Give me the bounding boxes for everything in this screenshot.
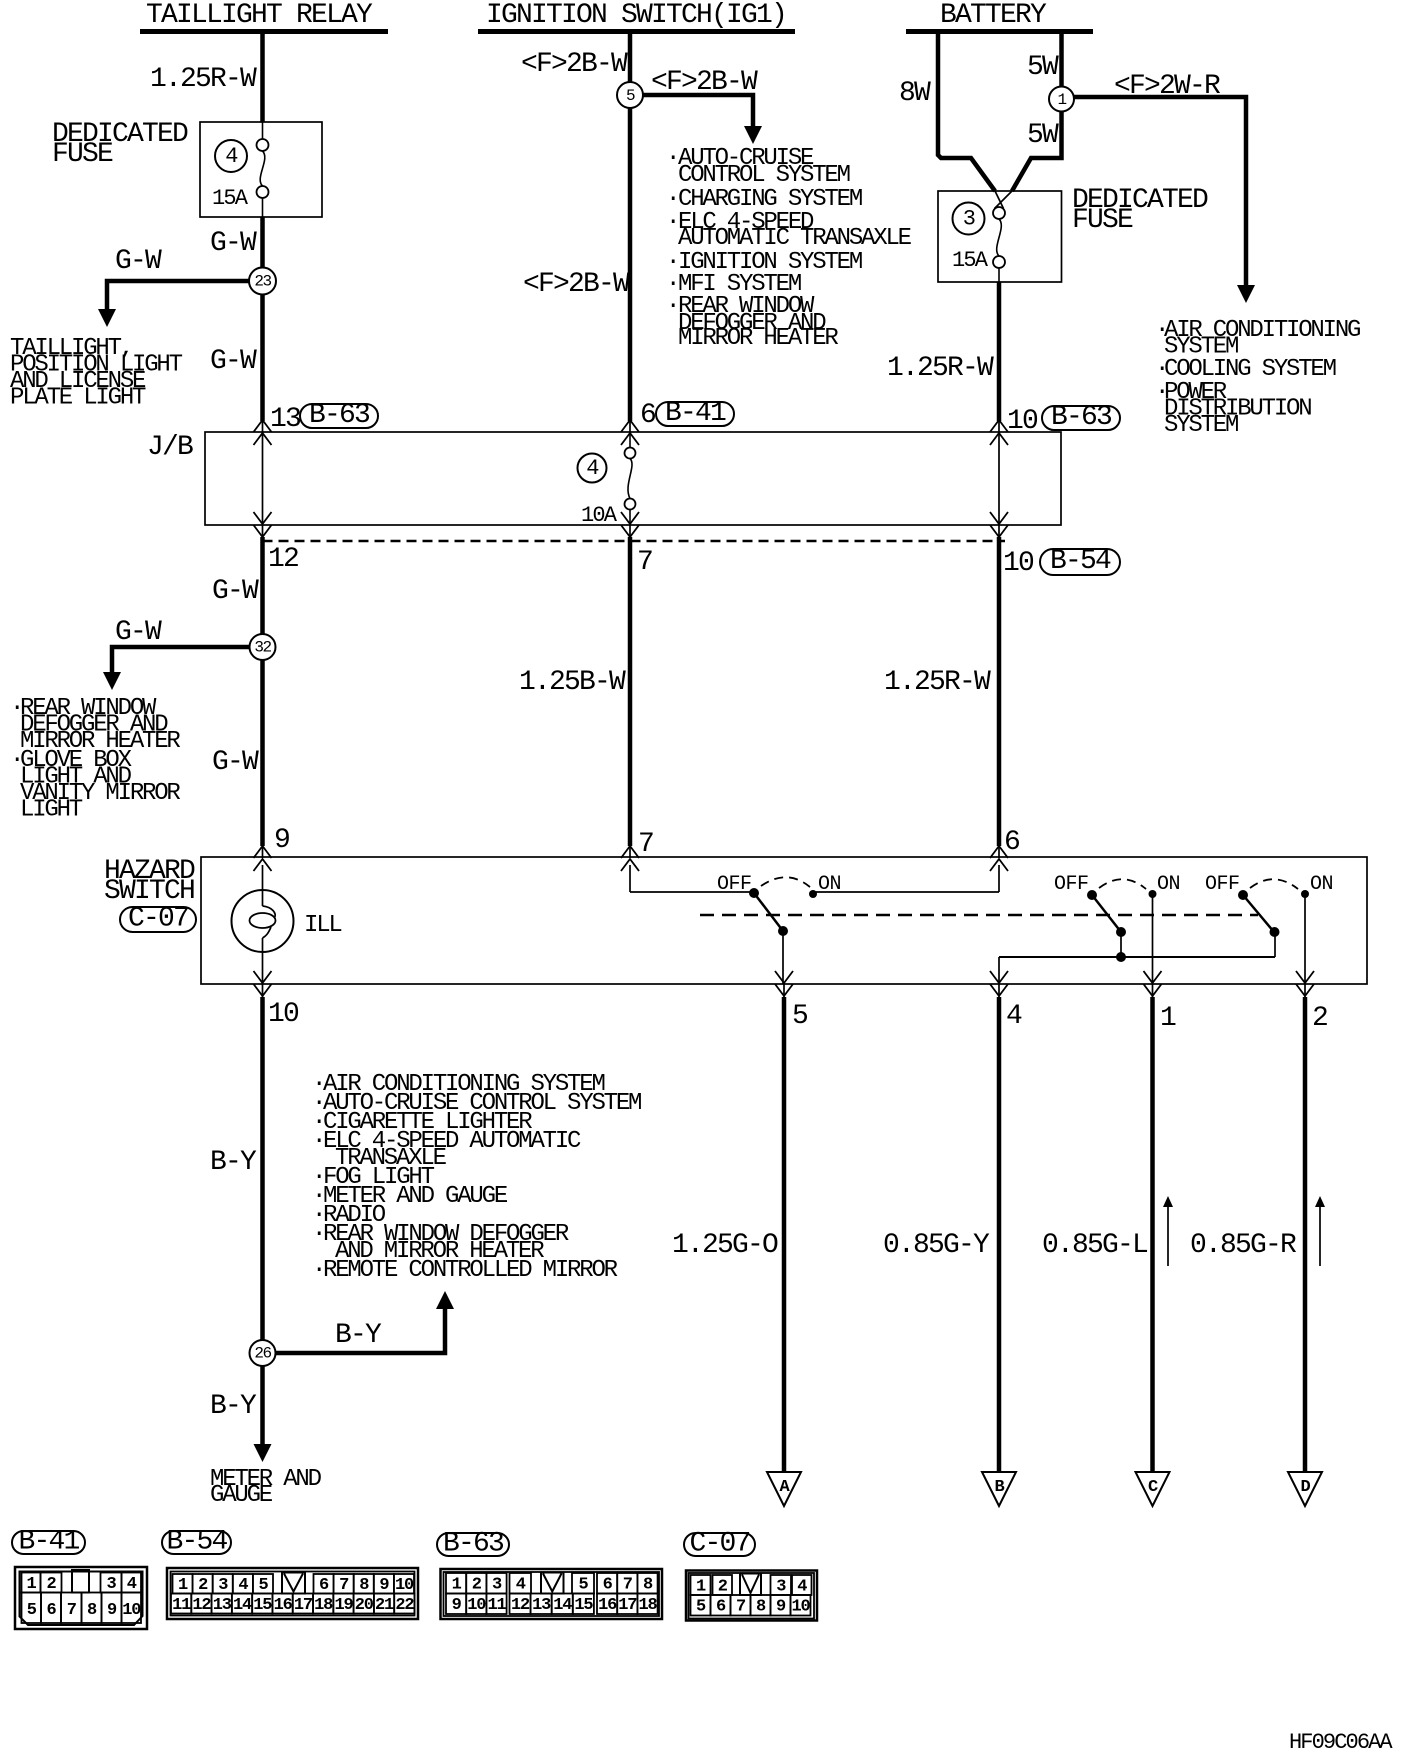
pin 10 label (below J/B) bbox=[1003, 548, 1034, 579]
wire: J/B internal left bbox=[262, 433, 264, 524]
svg-text:12: 12 bbox=[511, 1596, 530, 1615]
svg-text:18: 18 bbox=[314, 1596, 333, 1615]
node 26 junction bbox=[250, 1340, 276, 1366]
svg-text:9: 9 bbox=[274, 825, 289, 856]
wire: J/B 10 to hazard 6 (1.25R-W) bbox=[997, 537, 1002, 846]
node 5 junction bbox=[617, 82, 643, 108]
connector chevrons J/B bottom pin 7 bbox=[621, 512, 639, 538]
svg-text:1.25G-O: 1.25G-O bbox=[672, 1230, 778, 1261]
connector pinout C-07 bbox=[684, 1529, 817, 1621]
dashed line below J/B bbox=[263, 540, 1006, 542]
label OFF (switch 2) bbox=[1054, 873, 1089, 896]
pin 2 label bbox=[1312, 1003, 1327, 1034]
connector chevrons hazard bottom pin 10 bbox=[254, 971, 272, 997]
svg-text:10A: 10A bbox=[581, 503, 618, 528]
svg-text:10: 10 bbox=[268, 999, 299, 1030]
arrowhead branch node 5 bbox=[744, 126, 762, 144]
svg-text:15A: 15A bbox=[212, 186, 249, 211]
label G-W (branch) bbox=[115, 246, 162, 277]
svg-text:OFF: OFF bbox=[1205, 873, 1240, 896]
svg-text:5: 5 bbox=[27, 1601, 37, 1620]
svg-text:13: 13 bbox=[213, 1596, 232, 1615]
svg-text:23: 23 bbox=[254, 273, 271, 291]
label B-Y (branch) bbox=[335, 1320, 382, 1351]
svg-text:4: 4 bbox=[516, 1576, 526, 1595]
svg-text:15A: 15A bbox=[952, 248, 989, 273]
svg-text:12: 12 bbox=[192, 1596, 211, 1615]
svg-text:4: 4 bbox=[127, 1575, 137, 1594]
svg-text:5: 5 bbox=[696, 1598, 706, 1617]
svg-text:AUTOMATIC TRANSAXLE: AUTOMATIC TRANSAXLE bbox=[678, 225, 912, 252]
svg-text:LIGHT: LIGHT bbox=[20, 797, 83, 824]
connector chevrons J/B top pin 13 bbox=[254, 420, 272, 445]
svg-text:·: · bbox=[666, 209, 678, 236]
svg-text:9: 9 bbox=[379, 1576, 389, 1595]
switch 3 OFF contact bbox=[1238, 890, 1248, 900]
switch 1 throw arc bbox=[761, 877, 810, 887]
svg-text:C: C bbox=[1148, 1478, 1158, 1497]
wire: battery right 5W lower into fuse bbox=[995, 111, 1062, 209]
pin 12 label bbox=[268, 544, 298, 575]
wire: battery right 5W upper bbox=[1059, 34, 1064, 87]
svg-text:4: 4 bbox=[225, 144, 238, 169]
svg-text:0.85G-Y: 0.85G-Y bbox=[883, 1230, 990, 1261]
node: IGNITION SWITCH(IG1) header bbox=[478, 0, 795, 34]
fuse F3 element bbox=[993, 207, 1005, 282]
connector chevrons J/B top pin 10 bbox=[990, 420, 1008, 445]
connector triangle D bbox=[1288, 1472, 1322, 1506]
svg-text:4: 4 bbox=[1006, 1001, 1022, 1032]
svg-text:8: 8 bbox=[756, 1598, 766, 1617]
svg-text:B-Y: B-Y bbox=[210, 1391, 257, 1422]
label 1.25R-W (taillight relay wire) bbox=[150, 64, 257, 95]
fuse F4 id circle bbox=[215, 140, 247, 172]
label G-W (below node 23) bbox=[210, 346, 257, 377]
label OFF (switch 3) bbox=[1205, 873, 1240, 896]
svg-text:PLATE LIGHT: PLATE LIGHT bbox=[10, 385, 146, 412]
svg-text:6: 6 bbox=[1004, 827, 1019, 858]
label OFF (switch 1) bbox=[717, 873, 752, 896]
connector chevrons J/B top pin 6 bbox=[621, 420, 639, 445]
svg-text:8: 8 bbox=[87, 1601, 97, 1620]
connector ref B-41 (pin 6) bbox=[656, 398, 734, 429]
wire: hazard 1 to connector C (0.85G-L) bbox=[1150, 997, 1155, 1472]
svg-text:0.85G-R: 0.85G-R bbox=[1190, 1230, 1297, 1261]
label 1.25G-O bbox=[672, 1230, 778, 1261]
label DEDICATED FUSE (right) bbox=[1072, 185, 1208, 236]
svg-text:6: 6 bbox=[46, 1601, 56, 1620]
label 15A (fuse 4) bbox=[212, 186, 249, 211]
svg-text:26: 26 bbox=[254, 1345, 271, 1363]
svg-text:5: 5 bbox=[258, 1576, 268, 1595]
svg-text:14: 14 bbox=[553, 1596, 572, 1615]
connector triangle A bbox=[767, 1472, 801, 1506]
svg-text:B-63: B-63 bbox=[443, 1529, 504, 1560]
connector ref B-54 (pin 10) bbox=[1040, 546, 1120, 577]
connector triangle B bbox=[982, 1472, 1016, 1506]
svg-text:MIRROR HEATER: MIRROR HEATER bbox=[678, 325, 838, 352]
text: taillight loads list bbox=[10, 335, 183, 412]
connector chevrons J/B bottom pin 12 bbox=[254, 512, 272, 538]
junction dot bus/switch2 bbox=[1116, 952, 1126, 962]
svg-text:B-63: B-63 bbox=[1051, 402, 1112, 433]
connector ref B-63 (pin 10) bbox=[1042, 402, 1120, 433]
wire: taillight relay feed into dedicated fuse bbox=[260, 34, 265, 122]
label B-Y (upper) bbox=[210, 1147, 257, 1178]
label ON (switch 1) bbox=[818, 873, 841, 896]
connector ref B-63 (pin 13) bbox=[300, 400, 378, 431]
switch 3 throw arc bbox=[1250, 879, 1298, 889]
label ILL bbox=[304, 912, 341, 939]
pin 5 label bbox=[792, 1001, 808, 1032]
wire: J/B internal right bbox=[998, 433, 1000, 524]
text: node 32 load list bbox=[10, 695, 180, 824]
arrowhead to meter and gauge bbox=[254, 1444, 272, 1462]
label ON (switch 3) bbox=[1310, 873, 1333, 896]
switch 2 ON contact bbox=[1149, 890, 1157, 898]
label 5W (lower) bbox=[1027, 120, 1059, 151]
text: METER AND GAUGE bbox=[210, 1466, 322, 1509]
svg-text:G-W: G-W bbox=[115, 246, 162, 277]
svg-text:1: 1 bbox=[452, 1576, 462, 1595]
svg-text:4: 4 bbox=[238, 1576, 248, 1595]
svg-text:·: · bbox=[666, 145, 678, 172]
connector pinout B-54 bbox=[162, 1527, 418, 1620]
svg-text:·: · bbox=[666, 293, 678, 320]
text: illumination load list bbox=[312, 1071, 641, 1284]
svg-text:15: 15 bbox=[253, 1596, 272, 1615]
switch 1 lever pivot bbox=[778, 926, 788, 936]
junction block J/B box bbox=[205, 432, 1061, 525]
pin 4 label bbox=[1006, 1001, 1022, 1032]
svg-text:18: 18 bbox=[638, 1596, 657, 1615]
label <F>2B-W (upper) bbox=[521, 49, 628, 80]
svg-text:22: 22 bbox=[395, 1596, 414, 1615]
svg-text:6: 6 bbox=[603, 1576, 613, 1595]
label 10A bbox=[581, 503, 618, 528]
label 5W (upper) bbox=[1027, 52, 1059, 83]
svg-text:21: 21 bbox=[375, 1596, 394, 1615]
svg-text:C-07: C-07 bbox=[689, 1529, 749, 1560]
switch 3 ON contact bbox=[1301, 890, 1309, 898]
svg-text:2: 2 bbox=[198, 1576, 208, 1595]
svg-text:1.25B-W: 1.25B-W bbox=[519, 667, 626, 698]
label B-Y (lower) bbox=[210, 1391, 257, 1422]
text: IG1 load list bbox=[666, 145, 912, 352]
svg-text:2: 2 bbox=[46, 1575, 56, 1594]
svg-text:4: 4 bbox=[797, 1578, 807, 1597]
label ON (switch 2) bbox=[1157, 873, 1180, 896]
svg-text:1: 1 bbox=[178, 1576, 188, 1595]
pin 9 label bbox=[274, 825, 289, 856]
svg-text:B: B bbox=[994, 1478, 1004, 1497]
svg-text:17: 17 bbox=[294, 1596, 313, 1615]
svg-text:B-41: B-41 bbox=[18, 1527, 79, 1558]
svg-text:7: 7 bbox=[67, 1601, 77, 1620]
switch 2 lever pivot bbox=[1116, 927, 1126, 937]
wire: branch from node 5 to systems bbox=[630, 95, 753, 130]
svg-text:OFF: OFF bbox=[1054, 873, 1089, 896]
svg-text:B-Y: B-Y bbox=[335, 1320, 382, 1351]
label: diagram code HF09C06AA bbox=[1289, 1730, 1393, 1755]
svg-text:7: 7 bbox=[638, 829, 653, 860]
svg-text:10: 10 bbox=[467, 1596, 486, 1615]
fuse box: dedicated fuse 4 bbox=[200, 122, 322, 217]
svg-text:16: 16 bbox=[274, 1596, 293, 1615]
label HAZARD SWITCH bbox=[104, 856, 195, 907]
svg-text:2: 2 bbox=[1312, 1003, 1327, 1034]
wire: switch 1 pivot to pin 5 bbox=[782, 931, 784, 984]
svg-text:1: 1 bbox=[1160, 1003, 1176, 1034]
node: TAILLIGHT RELAY header bbox=[140, 0, 388, 34]
svg-text:4: 4 bbox=[586, 456, 599, 481]
svg-text:G-W: G-W bbox=[210, 228, 257, 259]
connector pinout B-41 bbox=[12, 1527, 147, 1630]
svg-text:B-Y: B-Y bbox=[210, 1147, 257, 1178]
svg-text:OFF: OFF bbox=[717, 873, 752, 896]
svg-text:B-63: B-63 bbox=[309, 400, 370, 431]
svg-text:16: 16 bbox=[598, 1596, 617, 1615]
svg-text:6: 6 bbox=[716, 1598, 726, 1617]
svg-text:CONTROL SYSTEM: CONTROL SYSTEM bbox=[678, 162, 850, 189]
svg-text:3: 3 bbox=[106, 1575, 116, 1594]
svg-text:32: 32 bbox=[254, 639, 271, 657]
flow arrow (pin 2 wire) bbox=[1315, 1196, 1325, 1266]
wire: battery left 8W bbox=[938, 34, 1004, 209]
svg-text:5: 5 bbox=[578, 1576, 588, 1595]
wire: fuse 3 to J/B pin 10 (1.25R-W) bbox=[997, 282, 1002, 421]
wire: branch from node 23 to taillight loads bbox=[107, 281, 263, 313]
svg-text:11: 11 bbox=[487, 1596, 506, 1615]
node 1 junction bbox=[1049, 87, 1074, 112]
wire: ignition switch IG1 feed bbox=[628, 34, 633, 421]
svg-text:14: 14 bbox=[233, 1596, 252, 1615]
svg-text:5W: 5W bbox=[1027, 120, 1059, 151]
hazard switch box bbox=[201, 857, 1367, 984]
svg-text:10: 10 bbox=[791, 1598, 810, 1617]
svg-text:10: 10 bbox=[395, 1576, 414, 1595]
label <F>2B-W (branch) bbox=[651, 67, 758, 98]
svg-text:6: 6 bbox=[319, 1576, 329, 1595]
svg-text:D: D bbox=[1300, 1478, 1310, 1497]
connector triangle C bbox=[1136, 1472, 1170, 1506]
lamp ILL (illumination bulb) bbox=[232, 865, 294, 984]
svg-text:TAILLIGHT RELAY: TAILLIGHT RELAY bbox=[146, 0, 373, 31]
connector chevrons hazard bottom pin 1 bbox=[1144, 971, 1162, 997]
switch 1 lever bbox=[754, 893, 783, 931]
wire: hazard 10 down (B-Y) bbox=[260, 997, 265, 1449]
svg-text:7: 7 bbox=[736, 1598, 746, 1617]
pin 1 label bbox=[1160, 1003, 1176, 1034]
svg-text:G-W: G-W bbox=[210, 346, 257, 377]
pin 13 label bbox=[270, 404, 301, 435]
svg-text:1: 1 bbox=[26, 1575, 36, 1594]
pin 6 label bbox=[640, 400, 655, 431]
connector chevrons hazard bottom pin 4 bbox=[990, 971, 1008, 997]
node: BATTERY header bbox=[906, 0, 1093, 34]
label G-W (above node 23) bbox=[210, 228, 257, 259]
svg-text:9: 9 bbox=[452, 1596, 462, 1615]
label <F>2B-W (lower) bbox=[523, 269, 630, 300]
svg-text:10: 10 bbox=[1003, 548, 1034, 579]
svg-text:2: 2 bbox=[718, 1578, 728, 1597]
arrowhead branch node 1 bbox=[1237, 285, 1255, 303]
switch 1 wiring (hazard pin7 to OFF) bbox=[630, 865, 752, 892]
wire: hazard 4 to connector B (0.85G-Y) bbox=[997, 997, 1002, 1472]
label DEDICATED FUSE (left) bbox=[52, 119, 188, 170]
svg-text:GAUGE: GAUGE bbox=[210, 1482, 273, 1509]
svg-text:C-07: C-07 bbox=[128, 904, 188, 935]
svg-text:12: 12 bbox=[268, 544, 298, 575]
switch 2 lever bbox=[1092, 895, 1121, 932]
svg-text:7: 7 bbox=[637, 547, 652, 578]
svg-text:ON: ON bbox=[1310, 873, 1333, 896]
svg-text:3: 3 bbox=[218, 1576, 228, 1595]
fuse F4 element bbox=[257, 122, 269, 217]
svg-text:SYSTEM: SYSTEM bbox=[1164, 412, 1238, 439]
label J/B bbox=[147, 432, 193, 463]
pin 10 label (J/B top right) bbox=[1007, 406, 1038, 437]
svg-text:HF09C06AA: HF09C06AA bbox=[1289, 1730, 1393, 1755]
svg-text:<F>2B-W: <F>2B-W bbox=[521, 49, 628, 80]
svg-text:G-W: G-W bbox=[212, 576, 259, 607]
connector chevrons hazard top pin 7 bbox=[621, 846, 639, 871]
svg-text:7: 7 bbox=[339, 1576, 349, 1595]
svg-text:2: 2 bbox=[472, 1576, 482, 1595]
label G-W (above hazard 9) bbox=[212, 747, 259, 778]
svg-text:B-54: B-54 bbox=[1050, 546, 1111, 577]
switch 1 OFF contact bbox=[749, 888, 759, 898]
svg-text:G-W: G-W bbox=[115, 617, 162, 648]
svg-text:SWITCH: SWITCH bbox=[104, 876, 194, 907]
svg-text:G-W: G-W bbox=[212, 747, 259, 778]
switch 1 ON contact bbox=[809, 890, 817, 898]
switch 2 throw arc bbox=[1099, 879, 1146, 889]
svg-text:9: 9 bbox=[776, 1598, 786, 1617]
wire: branch from node 1 to A/C systems bbox=[1062, 97, 1247, 289]
svg-text:7: 7 bbox=[623, 1576, 633, 1595]
svg-text:5W: 5W bbox=[1027, 52, 1059, 83]
svg-text:<F>2B-W: <F>2B-W bbox=[523, 269, 630, 300]
label 1.25B-W bbox=[519, 667, 626, 698]
svg-text:FUSE: FUSE bbox=[52, 139, 113, 170]
node 23 junction bbox=[249, 268, 276, 295]
pin 10 label (hazard bottom) bbox=[268, 999, 299, 1030]
label 1.25R-W (battery to J/B) bbox=[887, 353, 994, 384]
svg-text:REMOTE CONTROLLED MIRROR: REMOTE CONTROLLED MIRROR bbox=[323, 1257, 618, 1284]
wire: switch3 ON to pin 2 bbox=[1304, 894, 1306, 984]
pin 6 label (hazard) bbox=[1004, 827, 1019, 858]
wire: hazard 5 to connector A (1.25G-O) bbox=[782, 997, 787, 1472]
svg-text:5: 5 bbox=[626, 87, 635, 105]
svg-text:13: 13 bbox=[270, 404, 301, 435]
svg-text:ON: ON bbox=[1157, 873, 1180, 896]
svg-text:3: 3 bbox=[776, 1578, 786, 1597]
pin 7 label (hazard) bbox=[638, 829, 653, 860]
flow arrow (pin 1 wire) bbox=[1163, 1196, 1173, 1266]
arrowhead node 32 branch bbox=[103, 672, 121, 690]
connector pinout B-63 bbox=[437, 1529, 662, 1620]
wire: switch1 ON to pin 6 bbox=[816, 865, 999, 892]
svg-text:ILL: ILL bbox=[304, 912, 341, 939]
svg-text:J/B: J/B bbox=[147, 432, 193, 463]
switch 3 lever pivot bbox=[1270, 927, 1280, 937]
svg-text:10: 10 bbox=[122, 1601, 141, 1620]
svg-text:1: 1 bbox=[696, 1578, 706, 1597]
connector chevrons hazard bottom pin 5 bbox=[775, 971, 793, 997]
label 0.85G-L bbox=[1042, 1230, 1148, 1261]
connector ref C-07 (hazard switch) bbox=[120, 904, 196, 935]
connector chevrons hazard top pin 6 bbox=[990, 846, 1008, 871]
svg-text:6: 6 bbox=[640, 400, 655, 431]
switch gang dashed link bbox=[700, 914, 1258, 916]
label 8W bbox=[899, 78, 931, 109]
wire: J/B 12 to hazard switch 9 (G-W) bbox=[260, 537, 265, 846]
svg-text:B-54: B-54 bbox=[166, 1527, 227, 1558]
label 0.85G-R bbox=[1190, 1230, 1297, 1261]
wire: branch from node 32 to loads bbox=[112, 647, 263, 676]
connector chevrons hazard bottom pin 2 bbox=[1296, 971, 1314, 997]
svg-text:15: 15 bbox=[574, 1596, 593, 1615]
svg-text:BATTERY: BATTERY bbox=[940, 0, 1047, 31]
svg-text:FUSE: FUSE bbox=[1072, 205, 1133, 236]
svg-text:9: 9 bbox=[107, 1601, 117, 1620]
node 32 junction bbox=[250, 634, 276, 660]
text: battery load list bbox=[1155, 317, 1360, 439]
arrowhead node 26 branch (up) bbox=[436, 1291, 454, 1309]
svg-text:B-41: B-41 bbox=[665, 398, 726, 429]
wire: switch 2 pivot to bus bbox=[1120, 932, 1122, 957]
fuse F3 id circle bbox=[953, 203, 985, 235]
svg-text:1.25R-W: 1.25R-W bbox=[887, 353, 994, 384]
svg-text:1: 1 bbox=[1057, 91, 1066, 109]
switch 3 lever bbox=[1243, 895, 1274, 932]
svg-text:20: 20 bbox=[355, 1596, 374, 1615]
svg-text:8W: 8W bbox=[899, 78, 931, 109]
label 0.85G-Y bbox=[883, 1230, 990, 1261]
fuse in J/B id circle bbox=[578, 454, 607, 483]
svg-text:19: 19 bbox=[334, 1596, 353, 1615]
label 1.25R-W (to hazard 6) bbox=[884, 667, 991, 698]
fuse box: dedicated fuse 3 bbox=[938, 191, 1062, 282]
fuse in J/B element bbox=[625, 432, 636, 525]
svg-text:11: 11 bbox=[172, 1596, 191, 1615]
label <F>2W-R bbox=[1114, 71, 1221, 102]
svg-text:IGNITION SWITCH(IG1): IGNITION SWITCH(IG1) bbox=[486, 0, 786, 31]
pin 7 label (below J/B) bbox=[637, 547, 652, 578]
svg-text:1.25R-W: 1.25R-W bbox=[884, 667, 991, 698]
wire: hazard 2 to connector D (0.85G-R) bbox=[1303, 997, 1308, 1472]
svg-text:1.25R-W: 1.25R-W bbox=[150, 64, 257, 95]
svg-text:3: 3 bbox=[492, 1576, 502, 1595]
wire: J/B 7 to hazard 7 (1.25B-W) bbox=[628, 537, 633, 846]
wire: contact bus to pin 4 bbox=[999, 932, 1275, 984]
label 15A (fuse 3) bbox=[952, 248, 989, 273]
svg-text:3: 3 bbox=[963, 207, 975, 232]
svg-text:8: 8 bbox=[643, 1576, 653, 1595]
wire: branch node 26 to illumination loads bbox=[263, 1303, 446, 1353]
svg-text:13: 13 bbox=[532, 1596, 551, 1615]
svg-text:17: 17 bbox=[618, 1596, 637, 1615]
svg-text:0.85G-L: 0.85G-L bbox=[1042, 1230, 1148, 1261]
label G-W (above node 32) bbox=[212, 576, 259, 607]
svg-text:5: 5 bbox=[792, 1001, 808, 1032]
arrowhead to taillight loads bbox=[98, 309, 116, 327]
connector chevrons J/B bottom pin 10 bbox=[990, 512, 1008, 538]
svg-text:<F>2W-R: <F>2W-R bbox=[1114, 71, 1221, 102]
label G-W (node 32 branch) bbox=[115, 617, 162, 648]
svg-text:<F>2B-W: <F>2B-W bbox=[651, 67, 758, 98]
